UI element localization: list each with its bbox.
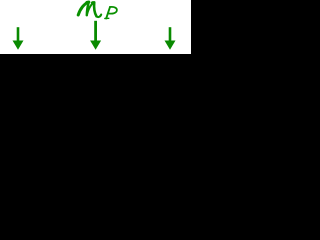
black lower region (0, 54, 191, 227)
white background band (top of slide fragment) (0, 0, 191, 54)
right arrow (165, 27, 176, 50)
label M_P (calligraphic M) (78, 2, 101, 17)
left arrow (13, 27, 24, 50)
middle arrow (below label) (90, 21, 101, 50)
label subscript P (italic) (105, 7, 117, 19)
